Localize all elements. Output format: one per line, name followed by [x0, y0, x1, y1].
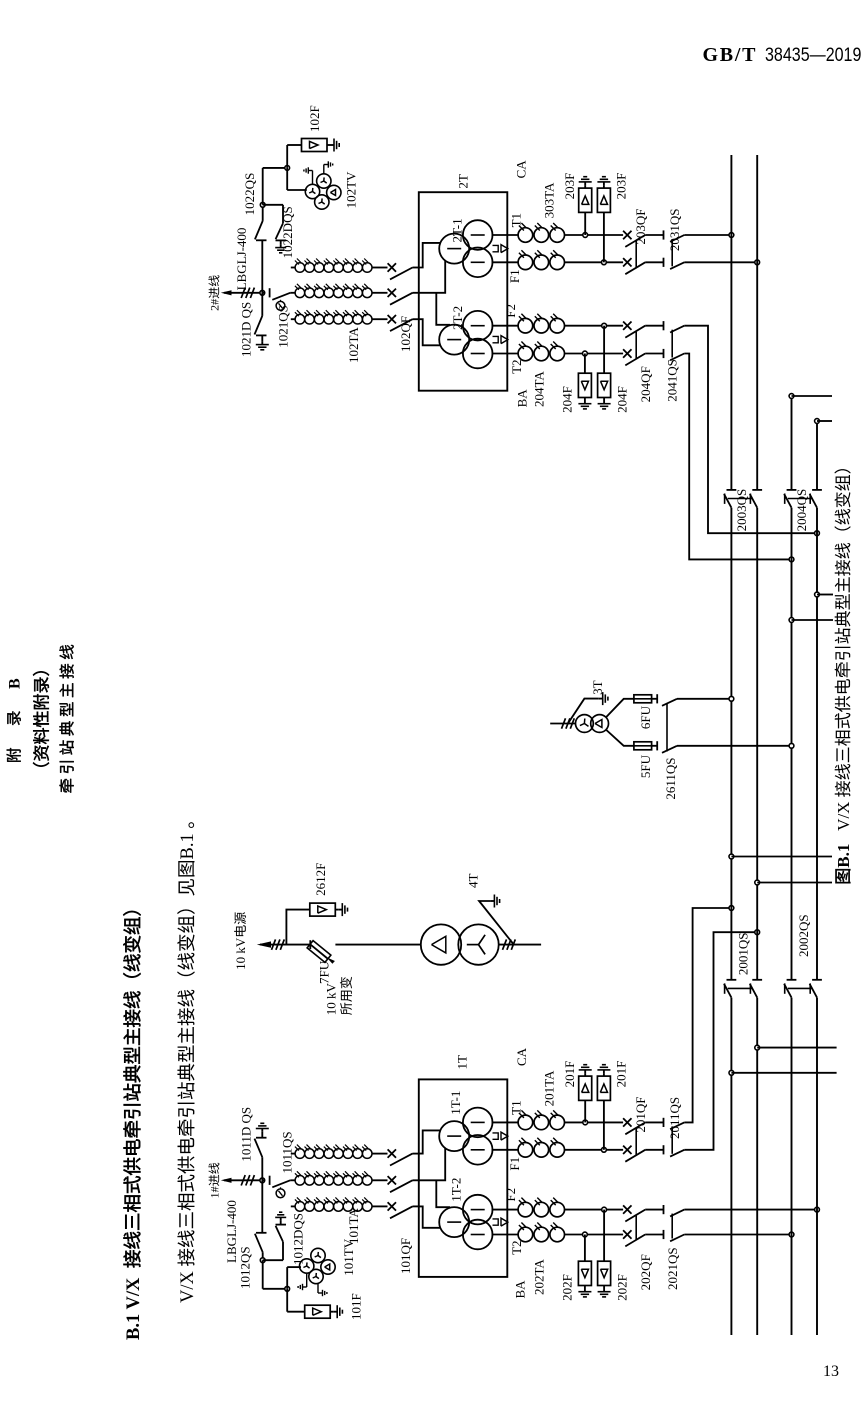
label 图 B.1	[835, 869, 850, 883]
svg-text:1012DQS: 1012DQS	[291, 1213, 306, 1265]
label （资料性附录）	[33, 762, 49, 766]
disconnector 2001QS	[724, 984, 731, 998]
svg-text:CA: CA	[514, 160, 529, 179]
svg-text:203F: 203F	[614, 173, 629, 200]
disconnector 1022QS	[261, 240, 263, 293]
svg-text:CA: CA	[514, 1047, 529, 1066]
svg-text:203QF: 203QF	[633, 208, 648, 244]
transformer 1T box	[419, 1079, 508, 1277]
feeder stub from bus 4	[815, 592, 820, 597]
disconnector 2002QS	[784, 984, 791, 998]
svg-text:2T-2: 2T-2	[450, 306, 465, 330]
feeder stub from bus 2	[755, 880, 760, 885]
svg-text:204TA: 204TA	[531, 371, 546, 407]
incoming line 2#进线	[224, 292, 262, 294]
fuse 5FU	[606, 730, 634, 746]
svg-text:202TA: 202TA	[531, 1259, 546, 1295]
label 接	[59, 664, 73, 678]
breaker 101QF pole 2	[388, 1176, 396, 1184]
disconnector 2003QS	[724, 494, 731, 508]
svg-text:1021QS: 1021QS	[275, 305, 290, 348]
svg-text:GB/T: GB/T	[703, 44, 757, 66]
label 引	[60, 761, 74, 773]
feeder F2 of 1T	[492, 1209, 519, 1211]
label 牵	[59, 779, 73, 793]
svg-text:2T-1: 2T-1	[449, 218, 464, 242]
svg-text:2031QS: 2031QS	[667, 208, 682, 251]
label 主	[60, 683, 74, 697]
svg-text:102TV: 102TV	[344, 171, 359, 208]
breaker 202QF	[623, 1230, 631, 1238]
current transformers 101TA	[291, 1205, 295, 1207]
svg-text:1T: 1T	[455, 1055, 470, 1070]
feeder F1 of 2T	[492, 261, 519, 263]
feeder stub from bus 1	[729, 1070, 734, 1075]
breaker 101QF pole 1	[388, 1202, 396, 1210]
svg-text:204F: 204F	[615, 386, 630, 413]
feeder stub from bus 3	[789, 394, 794, 399]
bus 3	[791, 998, 793, 1335]
svg-text:201F: 201F	[614, 1061, 629, 1088]
svg-text:303TA: 303TA	[542, 182, 557, 218]
svg-text:B.1: B.1	[834, 844, 853, 868]
svg-text:2003QS: 2003QS	[734, 489, 749, 532]
svg-text:2611QS: 2611QS	[663, 757, 678, 799]
disconnector 2031QS	[663, 258, 665, 267]
svg-text:202QF: 202QF	[638, 1254, 653, 1290]
svg-text:2002QS: 2002QS	[796, 914, 811, 957]
svg-text:38435—2019: 38435—2019	[765, 44, 861, 66]
voltage transformer 101TV	[286, 1267, 288, 1289]
svg-text:F1: F1	[507, 1157, 522, 1171]
svg-text:202F: 202F	[615, 1274, 630, 1301]
svg-text:V/X: V/X	[834, 802, 853, 831]
incoming line 1#进线	[224, 1179, 262, 1181]
feeder T2 of 1T	[492, 1234, 519, 1236]
disconnector 2004QS	[784, 494, 791, 508]
disconnector 1012QS	[261, 1180, 263, 1233]
wire phase A to unit1 primary	[419, 243, 441, 268]
surge arrester 101F	[286, 1289, 288, 1312]
svg-text:13: 13	[823, 1363, 839, 1380]
breaker 102QF pole 1	[388, 315, 396, 323]
label 附	[6, 748, 20, 762]
disconnector 2041QS	[663, 349, 665, 358]
svg-text:204F: 204F	[559, 386, 574, 413]
svg-text:7FU: 7FU	[316, 960, 331, 984]
svg-text:2612F: 2612F	[313, 863, 328, 896]
svg-text:101QF: 101QF	[398, 1238, 413, 1274]
surge arresters 203F (T1/F1)	[583, 233, 588, 238]
wire F1(1T) to bus2	[684, 932, 757, 1150]
wire phase C to unit2 primary	[419, 319, 441, 345]
disconnector 2011QS	[663, 1145, 665, 1154]
svg-text:1011D QS: 1011D QS	[238, 1107, 253, 1162]
bus 2	[756, 998, 758, 1335]
surge arrester 102F	[286, 145, 288, 168]
svg-text:B: B	[7, 678, 24, 689]
disconnector 2611QS	[666, 704, 668, 752]
svg-text:1022QS: 1022QS	[242, 173, 257, 216]
wire phase A to unit1 primary	[419, 1130, 441, 1153]
breaker 102QF pole 3	[388, 263, 396, 271]
transformer 3T	[576, 715, 594, 733]
transformer unit 2T-2	[439, 325, 469, 355]
label 所用变	[340, 1003, 352, 1015]
svg-text:2041QS: 2041QS	[665, 359, 680, 402]
svg-text:1012QS: 1012QS	[238, 1246, 253, 1289]
feeder stub from bus 4	[815, 419, 820, 424]
svg-text:102TA: 102TA	[346, 327, 361, 363]
polarity mark	[493, 1219, 499, 1225]
svg-text:201TA: 201TA	[542, 1070, 557, 1106]
svg-text:1T-1: 1T-1	[448, 1091, 463, 1115]
wire phase B tee	[419, 1148, 445, 1180]
node junction	[260, 290, 265, 295]
svg-text:2T: 2T	[456, 174, 471, 189]
label 典	[59, 721, 73, 735]
label 型	[60, 702, 74, 716]
4T neutral ground	[479, 901, 514, 945]
svg-text:203F: 203F	[562, 173, 577, 200]
svg-text:102F: 102F	[307, 105, 322, 132]
svg-text:204QF: 204QF	[638, 366, 653, 402]
wire T1(2T) to bus1	[684, 234, 731, 236]
disconnector 1011QS	[262, 1179, 265, 1181]
svg-text:202F: 202F	[559, 1274, 574, 1301]
svg-text:T1: T1	[509, 213, 524, 227]
earthing switch 1011D QS	[261, 1157, 263, 1180]
svg-text:2011QS: 2011QS	[667, 1097, 682, 1139]
svg-text:2#: 2#	[208, 299, 222, 311]
breaker 101QF pole 3	[388, 1149, 396, 1157]
svg-text:4T: 4T	[466, 874, 481, 889]
wire F2(1T) to bus4	[684, 1209, 817, 1211]
svg-text:F2: F2	[503, 304, 518, 318]
feeder stub from bus 1	[729, 854, 734, 859]
svg-text:102QF: 102QF	[398, 316, 413, 352]
svg-text:1#: 1#	[208, 1186, 222, 1198]
tap junction	[285, 166, 290, 171]
svg-text:T2: T2	[509, 359, 524, 373]
label 录	[7, 711, 20, 725]
wire T1(1T) to bus1	[684, 908, 731, 1122]
label 站	[59, 740, 73, 754]
transformer unit 2T-1	[439, 234, 469, 264]
wire F2(2T) to bus4	[684, 326, 817, 534]
svg-text:B.1 V/X: B.1 V/X	[124, 1277, 144, 1340]
bus 4	[816, 998, 818, 1335]
disconnector 1021QS	[262, 292, 265, 294]
surge arresters 201F (T1/F1)	[583, 1120, 588, 1125]
fuse 7FU	[309, 940, 311, 949]
3T neutral ground	[568, 699, 599, 724]
svg-text:1011QS: 1011QS	[280, 1131, 295, 1173]
wire T2(1T) to bus3	[684, 1234, 791, 1236]
svg-text:BA: BA	[515, 389, 530, 408]
voltage transformer 102TV	[286, 168, 288, 190]
feeder stub from bus 3	[789, 618, 794, 623]
svg-text:2021QS: 2021QS	[665, 1247, 680, 1290]
label 线	[59, 645, 73, 659]
surge arresters 204F (F2/T2)	[583, 351, 588, 356]
feeder T2 of 2T	[492, 353, 519, 355]
feeder T1 of 2T	[492, 234, 519, 236]
polarity mark	[493, 245, 499, 251]
svg-text:T2: T2	[509, 1240, 524, 1254]
wire F1(2T) to bus2	[684, 261, 757, 263]
surge arrester 2612F	[286, 910, 309, 945]
transformer unit 1T-1	[439, 1121, 469, 1151]
polarity mark	[493, 1133, 499, 1139]
svg-text:201QF: 201QF	[633, 1096, 648, 1132]
svg-text:101TA: 101TA	[346, 1208, 361, 1244]
breaker 102QF pole 2	[388, 289, 396, 297]
svg-text:1022DQS: 1022DQS	[280, 206, 295, 258]
current transformers 102TA	[291, 318, 295, 320]
transformer 4T	[335, 944, 420, 946]
svg-text:101F: 101F	[349, 1293, 364, 1320]
earthing disconnector 1022DQS	[260, 202, 265, 207]
svg-text:F1: F1	[507, 269, 522, 283]
feeder stub from bus 2	[755, 1045, 760, 1050]
feeder F1 of 1T	[492, 1149, 519, 1151]
earthing switch 1021D QS	[261, 293, 263, 316]
bus 1	[730, 998, 732, 1335]
disconnector 2021QS	[663, 1230, 665, 1239]
incoming 10 kV supply	[257, 941, 271, 947]
wire phase C to unit2 primary	[419, 1206, 441, 1227]
transformer 2T box	[419, 192, 508, 391]
wire T2(2T) to bus3	[684, 354, 791, 560]
breaker 201QF	[623, 1146, 631, 1154]
node junction	[260, 1178, 265, 1183]
svg-text:2001QS: 2001QS	[736, 932, 751, 975]
svg-text:5FU: 5FU	[638, 754, 653, 778]
breaker 204QF	[623, 349, 631, 357]
svg-text:LBGLJ-400: LBGLJ-400	[234, 228, 249, 291]
svg-text:B.1: B.1	[178, 833, 198, 859]
svg-text:F2: F2	[503, 1188, 518, 1202]
feeder F2 of 2T	[492, 325, 519, 327]
svg-text:1T-2: 1T-2	[448, 1178, 463, 1202]
earthing disconnector 1012DQS	[260, 1258, 265, 1263]
svg-text:T1: T1	[509, 1100, 524, 1114]
transformer unit 1T-2	[439, 1207, 469, 1237]
fuse 6FU	[606, 699, 634, 718]
surge arresters 202F (F2/T2)	[583, 1232, 588, 1237]
svg-text:10 kV: 10 kV	[324, 982, 339, 1015]
svg-text:1021D QS: 1021D QS	[238, 302, 253, 357]
svg-text:V/X: V/X	[178, 1271, 198, 1304]
svg-text:201F: 201F	[562, 1061, 577, 1088]
breaker 203QF	[623, 258, 631, 266]
svg-text:2004QS: 2004QS	[794, 489, 809, 532]
feeder T1 of 1T	[492, 1121, 519, 1123]
tap junction	[285, 1286, 290, 1291]
svg-text:10 kV: 10 kV	[233, 937, 248, 970]
polarity mark	[493, 336, 499, 342]
svg-text:6FU: 6FU	[638, 705, 653, 729]
svg-text:BA: BA	[512, 1280, 527, 1299]
wire phase B tee	[419, 261, 445, 293]
